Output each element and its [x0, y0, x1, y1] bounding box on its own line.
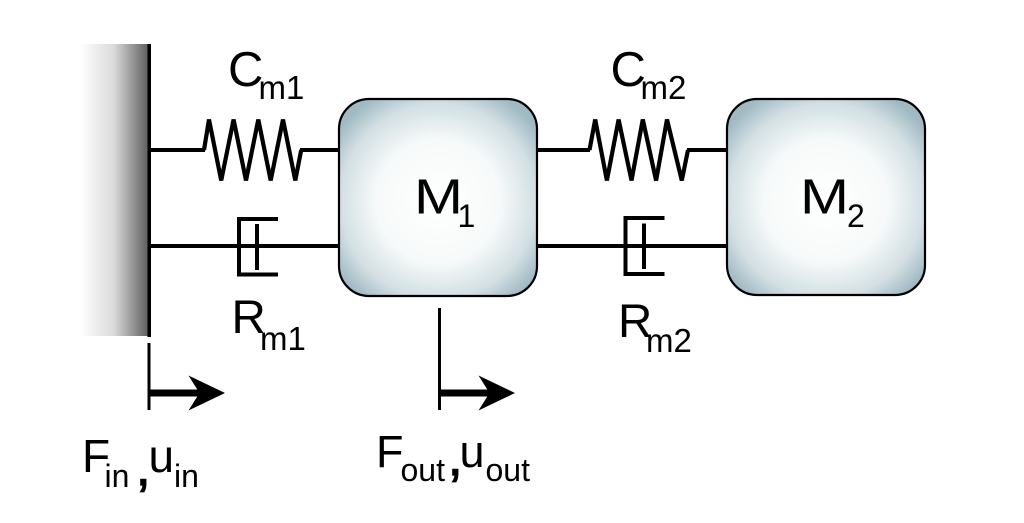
- arrow Fout: [440, 376, 515, 411]
- svg-text:in: in: [105, 458, 130, 494]
- damper Rm1: [237, 217, 278, 277]
- wall: [80, 44, 148, 336]
- label Fout uout: [376, 426, 530, 488]
- wire top-left: [151, 148, 205, 152]
- label M2: [800, 171, 865, 235]
- svg-text:M: M: [414, 171, 463, 225]
- wire bottom mass M1 to mass M2: [536, 244, 728, 248]
- reference line below mass M1: [438, 308, 441, 410]
- svg-text:u: u: [149, 430, 175, 482]
- arrow Fin: [149, 376, 225, 411]
- spring Cm2: [590, 120, 689, 181]
- wire spring Cm1 to mass M1: [300, 148, 340, 152]
- svg-text:2: 2: [847, 198, 865, 234]
- mass M1: [339, 99, 537, 296]
- svg-text:F: F: [376, 426, 404, 477]
- wall edge line: [148, 44, 152, 337]
- svg-text:out: out: [486, 452, 531, 488]
- label Rm1: [232, 291, 306, 357]
- svg-text:in: in: [174, 458, 199, 494]
- wire mass M1 to spring Cm2: [536, 148, 590, 152]
- svg-text:m2: m2: [641, 69, 687, 106]
- reference line below wall: [148, 343, 151, 410]
- wire bottom-left: [151, 244, 340, 248]
- svg-text:m1: m1: [259, 69, 305, 106]
- svg-text:1: 1: [458, 198, 476, 234]
- svg-text:m1: m1: [260, 320, 306, 357]
- wire spring Cm2 to mass M2: [687, 148, 728, 152]
- label M1: [414, 171, 475, 235]
- svg-text:m2: m2: [646, 322, 692, 359]
- label Rm2: [618, 295, 692, 359]
- label Cm2: [611, 43, 687, 106]
- label Fin uin: [82, 430, 199, 497]
- svg-text:M: M: [800, 171, 849, 225]
- damper Rm2: [624, 216, 665, 276]
- svg-text:out: out: [401, 452, 446, 488]
- label Cm1: [228, 43, 304, 106]
- svg-text:u: u: [460, 426, 485, 477]
- spring Cm1: [204, 120, 301, 181]
- mass M2: [727, 99, 925, 295]
